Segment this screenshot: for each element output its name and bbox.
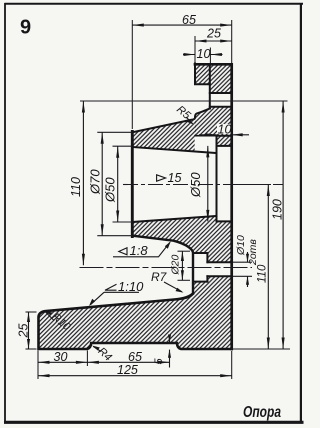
bore mouth face (131, 132, 134, 237)
dimension 10 right step (217, 124, 231, 134)
centerlines (80, 101, 288, 268)
top hole axis (80, 100, 288, 102)
hatch flange upper-left cell (195, 64, 210, 84)
notch floor, R5 fillet, cone outer top edge (132, 109, 210, 133)
taper note 1:8 (119, 248, 127, 255)
extension lines (26, 20, 291, 379)
hub bottom edge and window fillet to boss face (133, 236, 193, 294)
svg-text:25: 25 (17, 324, 31, 339)
hatch flange mid band (195, 107, 232, 136)
svg-text:65: 65 (182, 13, 196, 27)
svg-text:Опора: Опора (243, 404, 281, 421)
dimension 25 base left (28, 312, 30, 349)
step bottom edge (217, 135, 232, 137)
dimension 65 bottom (87, 361, 169, 363)
boss inner corner faces (206, 253, 208, 282)
dimension 30 bottom (38, 361, 87, 363)
bore top inner edge (132, 147, 216, 153)
flange underside edge (195, 135, 217, 137)
svg-text:190: 190 (271, 199, 285, 220)
svg-text:125: 125 (117, 363, 138, 377)
boss bottom edge (193, 281, 207, 283)
svg-text:Ø50: Ø50 (188, 172, 203, 198)
dimension 190 right (282, 101, 284, 349)
slope note 1:10 (105, 284, 117, 290)
dimension diameter 20 boss (181, 251, 183, 280)
dimension 125 bottom (38, 375, 232, 377)
boss top edge (193, 252, 207, 254)
boss hole axis (80, 267, 253, 269)
svg-text:110: 110 (69, 177, 83, 197)
main bore axis (123, 184, 283, 186)
dimension 10 top (notch width) (183, 54, 223, 56)
svg-text:110: 110 (257, 264, 269, 283)
dimension diameter 50 right (wall hole) (207, 146, 209, 222)
boss hole bottom edge (207, 275, 231, 277)
flange top edge and right wall edge (195, 64, 232, 349)
taper note 15 in bore (157, 175, 166, 181)
hatch cone top band (132, 119, 196, 151)
svg-text:Ø50: Ø50 (103, 177, 118, 203)
svg-text:Ø10: Ø10 (235, 235, 247, 256)
window lower fillet, base slope, R10 fillet, base left face, base bottom with recess (39, 294, 232, 349)
svg-text:5: 5 (153, 358, 165, 365)
counterbore bottom face (216, 136, 218, 222)
hatch flange upper-right cell (210, 64, 232, 93)
boss hole top edge (207, 261, 231, 263)
hatch step block right wall (217, 136, 232, 146)
svg-text:Ø20: Ø20 (170, 254, 182, 275)
bore bottom inner edge (132, 216, 216, 222)
wall hole top edge (217, 145, 232, 147)
dimension 110 left (82, 101, 84, 265)
svg-text:25: 25 (206, 27, 221, 41)
svg-text:10: 10 (218, 123, 232, 137)
svg-text:9: 9 (20, 17, 31, 39)
wall hole bottom edge (217, 220, 232, 222)
svg-text:1:8: 1:8 (130, 243, 149, 258)
flange hole bottom edge (210, 106, 232, 108)
svg-text:Ø70: Ø70 (88, 169, 103, 195)
svg-text:30: 30 (54, 350, 68, 364)
svg-text:15: 15 (168, 171, 182, 185)
hatch cone bottom band and mid wall (132, 216, 231, 262)
dimension diameter 70 (101, 132, 103, 235)
svg-text:10: 10 (197, 47, 211, 61)
flange left face upper and notch (195, 64, 210, 109)
flange hole top edge (210, 92, 232, 94)
flange cell divider (209, 64, 211, 84)
thick outlines (39, 64, 232, 350)
dimension 5 recess depth (169, 335, 171, 368)
hatch lower wall and base (39, 276, 232, 349)
dimension 110 right (267, 185, 269, 350)
dimension 65 top (132, 24, 231, 26)
dimension 25 top (195, 40, 232, 42)
svg-text:2отв: 2отв (247, 239, 259, 266)
svg-text:R7: R7 (151, 270, 168, 284)
dimension diameter 50 left (117, 146, 119, 222)
svg-text:65: 65 (128, 350, 142, 364)
